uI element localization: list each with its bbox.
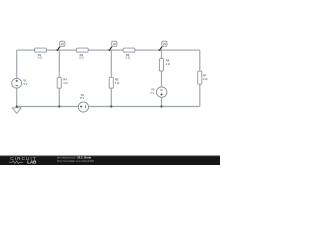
svg-text:R7: R7 (203, 73, 207, 77)
svg-text:v1: v1 (61, 42, 64, 46)
svg-text:5 V: 5 V (23, 82, 27, 86)
svg-text:1 Ω: 1 Ω (115, 81, 119, 85)
svg-text:http://circuitlab.com/c8pv2365: http://circuitlab.com/c8pv2365 (57, 159, 94, 163)
svg-text:1 Ω: 1 Ω (63, 81, 67, 85)
svg-text:2 Ω: 2 Ω (125, 56, 129, 60)
svg-text:7 V: 7 V (150, 91, 154, 95)
svg-text:LAB: LAB (27, 160, 36, 165)
svg-text:V1: V1 (23, 79, 27, 83)
svg-text:1 Ω: 1 Ω (166, 62, 170, 66)
svg-text:2 Ω: 2 Ω (79, 56, 83, 60)
svg-text:2 Ω: 2 Ω (203, 77, 207, 81)
svg-text:8 V: 8 V (80, 96, 84, 100)
svg-text:v2: v2 (113, 42, 116, 46)
svg-text:1 Ω: 1 Ω (37, 56, 41, 60)
svg-text:v3: v3 (163, 42, 166, 46)
svg-text:V3: V3 (151, 88, 155, 92)
svg-text:R6: R6 (166, 59, 170, 63)
svg-text:R4: R4 (63, 78, 67, 82)
svg-text:R5: R5 (115, 78, 119, 82)
